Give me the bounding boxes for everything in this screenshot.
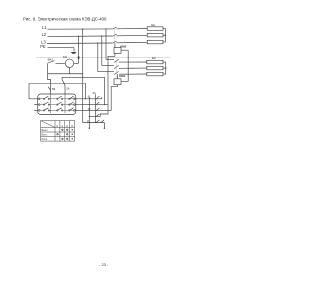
svg-text:Рис. 9. Электрическая схема КЭ: Рис. 9. Электрическая схема КЭВ-ДС-400 bbox=[23, 17, 107, 22]
heater EK2 element 3 bbox=[147, 72, 163, 76]
wire PE bbox=[48, 47, 75, 49]
mode switch shafts bbox=[51, 94, 66, 113]
mode table marks bbox=[57, 129, 73, 139]
contactor KM1 contact 3 bbox=[114, 71, 147, 74]
svg-text:Нагр.: Нагр. bbox=[41, 138, 48, 141]
mode switch row 3 bbox=[38, 108, 75, 111]
svg-text:Вент.: Вент. bbox=[41, 134, 48, 137]
mode switch row links bbox=[40, 99, 74, 111]
switch BK lead 1 bbox=[48, 74, 51, 94]
ladder common wire bbox=[95, 94, 97, 122]
faint scan line bbox=[36, 57, 170, 59]
svg-text:2А: 2А bbox=[66, 87, 69, 91]
wire main control bus from L1 bbox=[82, 28, 83, 122]
motor M1 bbox=[65, 59, 73, 67]
contactor KM2 main contact 1 bbox=[112, 27, 147, 29]
wire control feed top bbox=[62, 77, 105, 105]
wire L1 bbox=[48, 28, 113, 30]
contactor KM1 contact 1 bbox=[114, 59, 147, 62]
wire EK2 bus bbox=[163, 62, 166, 74]
terminal stub left bbox=[89, 123, 90, 129]
switch left stub row3 bbox=[34, 110, 37, 111]
ladder row 1 bbox=[76, 96, 102, 99]
contactor KM2 main contact 2 bbox=[112, 34, 147, 36]
ground bbox=[71, 48, 77, 54]
ladder row 2 bbox=[76, 102, 108, 105]
wire motor right to L2 bbox=[74, 36, 79, 63]
svg-text:- 23 -: - 23 - bbox=[99, 262, 109, 267]
wire long control link bbox=[29, 83, 86, 99]
heater EK1 element 2 bbox=[147, 33, 163, 37]
wire L1 drop to control bus bbox=[105, 28, 106, 59]
wire motor return bbox=[48, 73, 83, 75]
wire phase row feed 3 bbox=[98, 71, 114, 73]
thermal switch BK1 bbox=[48, 61, 66, 74]
ladder row 3 bbox=[76, 108, 111, 111]
linkage KM1 bbox=[116, 61, 118, 79]
contactor KM1 contact 2 bbox=[114, 66, 147, 69]
wire L3 drop bbox=[97, 42, 98, 71]
mode table row labels bbox=[41, 129, 48, 141]
heater EK2 element 1 bbox=[147, 60, 163, 64]
mode switch BK box bbox=[38, 94, 76, 115]
wire EK1 bus bbox=[163, 29, 166, 43]
heater EK1 element 1 bbox=[147, 27, 163, 31]
wire motor bottom bbox=[69, 68, 71, 74]
wire L2 drop bbox=[101, 35, 102, 65]
svg-text:Выкл.: Выкл. bbox=[41, 129, 48, 132]
svg-text:ЕК: ЕК bbox=[152, 56, 156, 60]
mode table bbox=[41, 121, 75, 142]
contactor KM2 main contact 3 bbox=[112, 41, 147, 43]
mode switch row 1 bbox=[38, 96, 75, 99]
contactor coil KM1 bbox=[111, 74, 121, 110]
mode table header text bbox=[56, 124, 73, 128]
svg-text:ВК: ВК bbox=[52, 87, 56, 91]
switch BK lead 2 bbox=[62, 77, 65, 94]
arrow mark on motor feed bbox=[78, 56, 80, 59]
svg-text:PE: PE bbox=[40, 44, 46, 49]
mode switch row 2 bbox=[38, 102, 75, 105]
wire ladder feeder bbox=[88, 97, 90, 122]
heater EK2 element 2 bbox=[147, 66, 163, 70]
svg-text:L1: L1 bbox=[42, 25, 47, 30]
contactor coil KM2 bbox=[100, 43, 128, 116]
svg-text:М1: М1 bbox=[63, 55, 67, 59]
heater EK1 element 3 bbox=[147, 40, 163, 44]
wire KM2-KM1 coil link bbox=[121, 50, 129, 81]
terminal stub right bbox=[104, 123, 105, 129]
svg-text:КМ1: КМ1 bbox=[119, 74, 125, 78]
linkage KM2 bbox=[114, 28, 116, 47]
wire phase row feed 2 bbox=[102, 65, 114, 67]
svg-text:L2: L2 bbox=[42, 32, 47, 37]
switch left stub row2 bbox=[34, 104, 37, 105]
ladder row 4 bbox=[89, 114, 100, 117]
wire L2 bbox=[48, 35, 113, 37]
wire phase row feed 1 bbox=[106, 58, 114, 60]
wire L3 bbox=[47, 42, 112, 45]
ladder row 5 bottom bbox=[83, 120, 105, 123]
